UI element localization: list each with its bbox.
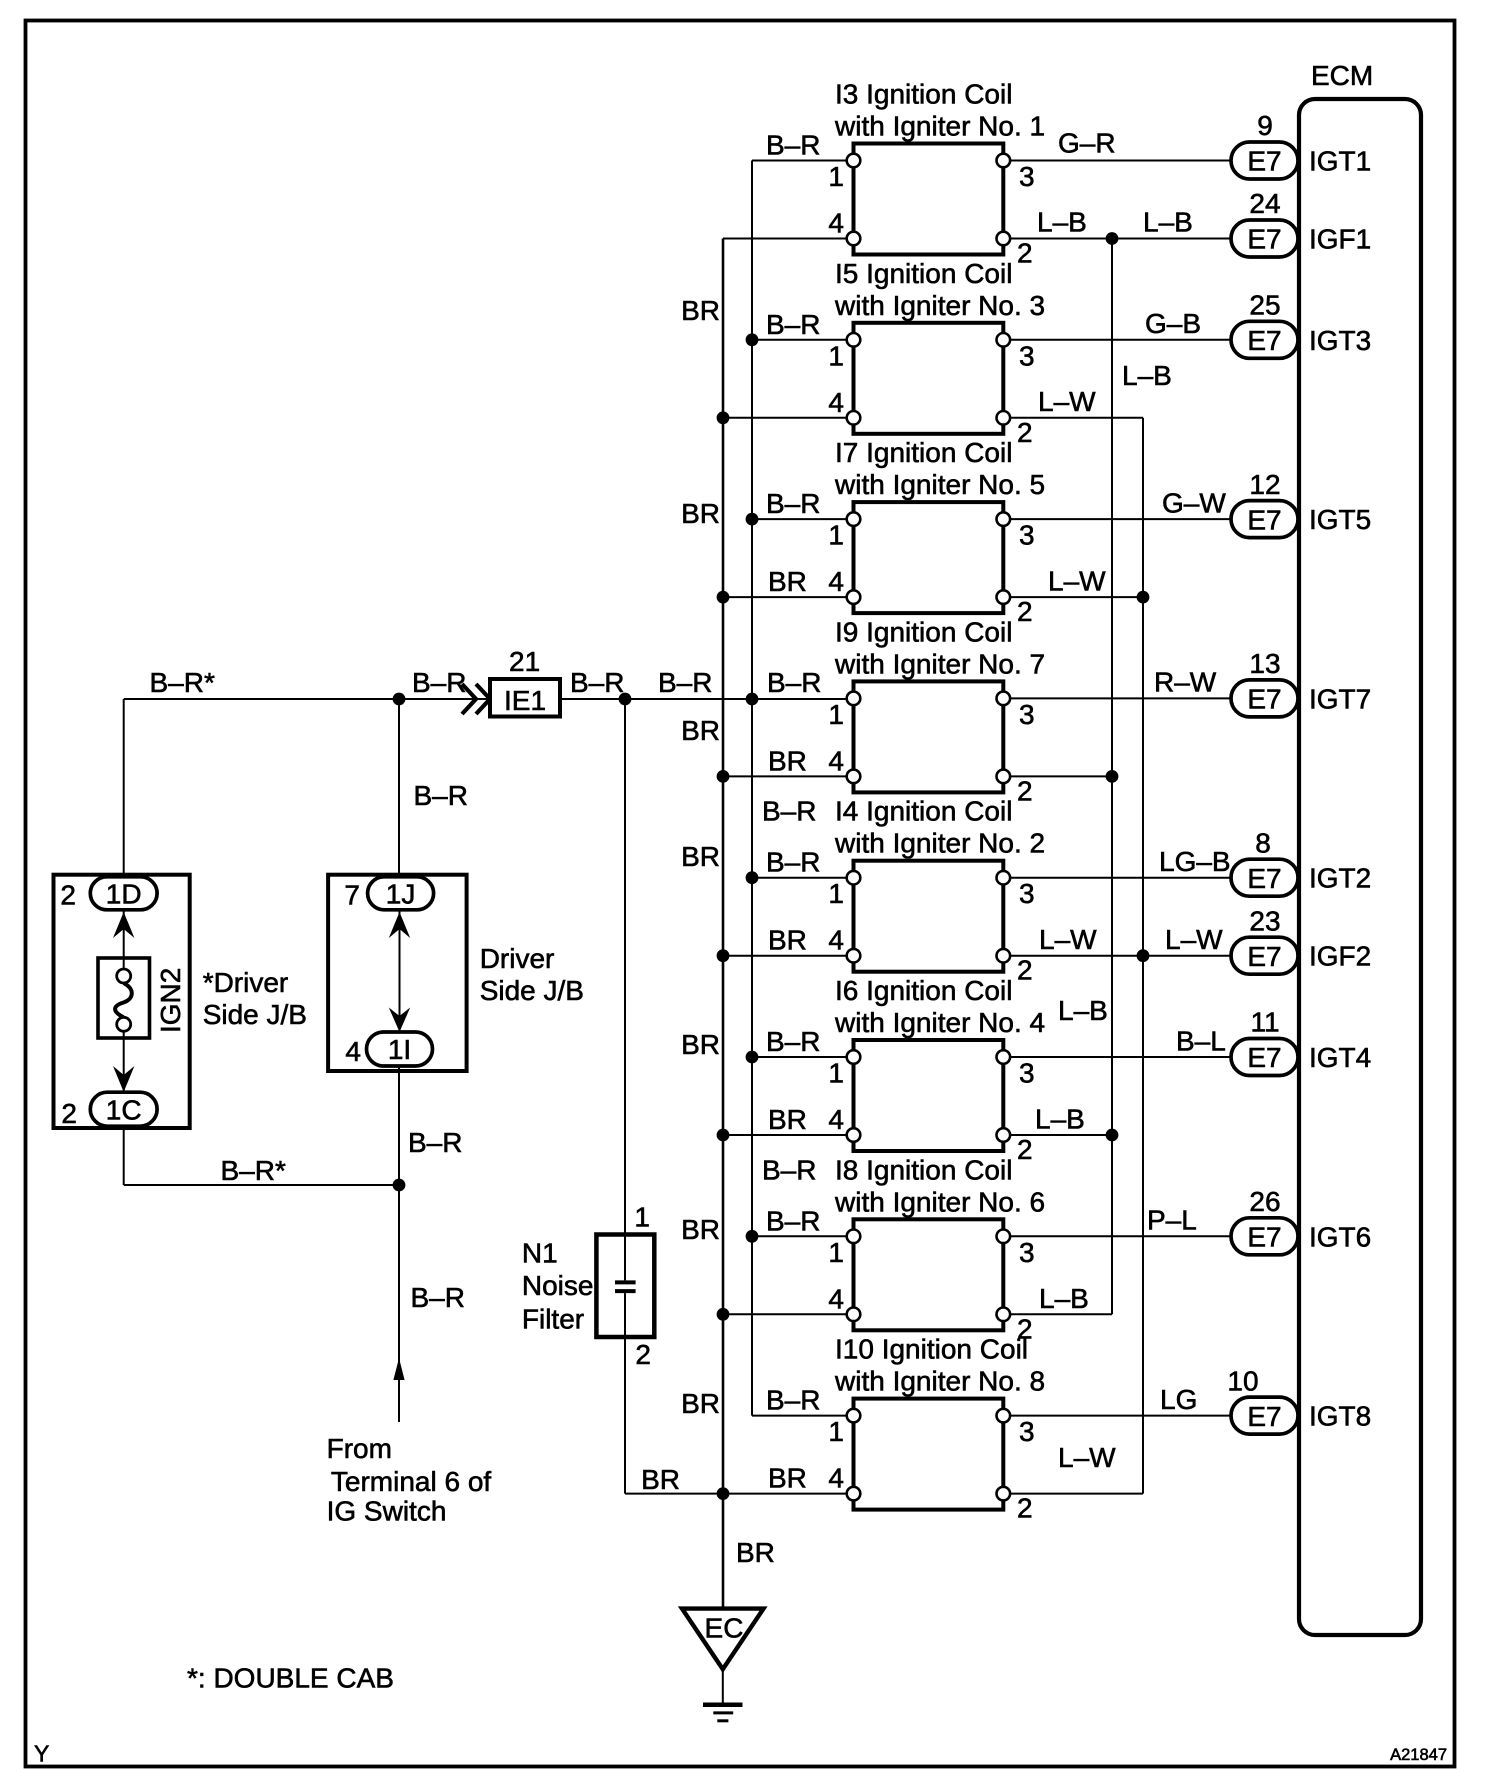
connector E7 pin 23 (IGF2) bbox=[1231, 905, 1298, 974]
connector E7 pin 25 (IGT3) bbox=[1231, 290, 1298, 359]
svg-text:23: 23 bbox=[1249, 905, 1280, 936]
svg-text:E7: E7 bbox=[1247, 325, 1281, 356]
svg-text:B–R*: B–R* bbox=[221, 1155, 286, 1186]
svg-text:Y: Y bbox=[34, 1741, 49, 1767]
connector E7 pin 12 (IGT5) bbox=[1231, 469, 1298, 538]
pin 3 of I5 bbox=[997, 333, 1035, 371]
svg-text:with Igniter No. 6: with Igniter No. 6 bbox=[834, 1186, 1045, 1217]
svg-text:IGF1: IGF1 bbox=[1309, 224, 1371, 255]
connector 1J bbox=[368, 877, 434, 910]
junction dot B-R bus pin1 I4 bbox=[746, 871, 759, 884]
junction dot BR bus pin4 I6 bbox=[717, 1129, 730, 1142]
svg-text:I5 Ignition Coil: I5 Ignition Coil bbox=[835, 258, 1012, 289]
wire L-W pin2 of I4 to ECM IGF2 bbox=[1003, 955, 1231, 957]
pin 2 of I9 bbox=[997, 770, 1033, 807]
label *Driver Side J/B bbox=[203, 967, 307, 1030]
pin 3 of I3 bbox=[997, 154, 1035, 192]
svg-text:Side J/B: Side J/B bbox=[480, 975, 584, 1006]
svg-text:3: 3 bbox=[1019, 1416, 1035, 1447]
junction dot B-R bus pin1 I5 bbox=[746, 333, 759, 346]
svg-text:I7 Ignition Coil: I7 Ignition Coil bbox=[835, 437, 1012, 468]
ignition coil I7 with igniter No. 5 bbox=[834, 437, 1045, 613]
wire vertical drop to 1J connector bbox=[398, 699, 400, 878]
svg-text:4: 4 bbox=[828, 745, 844, 776]
arrow from IG switch bbox=[393, 1358, 404, 1380]
pin 2 of I3 bbox=[997, 232, 1033, 269]
arrow down to 1C bbox=[113, 1066, 134, 1092]
wire B-R bus vertical bbox=[751, 161, 753, 1416]
svg-text:1J: 1J bbox=[386, 879, 416, 910]
svg-text:with Igniter No. 2: with Igniter No. 2 bbox=[834, 828, 1045, 859]
junction dot IGF2 row / L-W vertical bbox=[1137, 949, 1150, 962]
svg-text:with Igniter No. 7: with Igniter No. 7 bbox=[834, 648, 1045, 679]
wire B-R from junction to IE1 chevrons bbox=[399, 698, 490, 700]
ignition coil I5 with igniter No. 3 bbox=[834, 258, 1045, 434]
wire pin3 of I7 to ECM IGT5 bbox=[1003, 518, 1231, 520]
svg-text:1: 1 bbox=[828, 1058, 844, 1089]
svg-text:E7: E7 bbox=[1247, 863, 1281, 894]
svg-text:BR: BR bbox=[681, 715, 720, 746]
svg-text:IE1: IE1 bbox=[504, 685, 546, 716]
svg-text:2: 2 bbox=[1017, 596, 1033, 627]
ignition coil I6 with igniter No. 4 bbox=[834, 975, 1045, 1151]
pin 3 of I10 bbox=[997, 1409, 1035, 1447]
svg-text:4: 4 bbox=[828, 1463, 844, 1494]
svg-text:E7: E7 bbox=[1247, 224, 1281, 255]
svg-text:2: 2 bbox=[1017, 775, 1033, 806]
ignition coil I3 with igniter No. 1 bbox=[834, 79, 1045, 255]
junction dot noise filter tap bbox=[619, 693, 632, 706]
svg-text:1: 1 bbox=[828, 1416, 844, 1447]
pin 1 of I6 bbox=[828, 1050, 860, 1088]
pin 2 of I6 bbox=[997, 1128, 1033, 1165]
wire BR pin4 stub of I4 bbox=[723, 955, 854, 957]
svg-text:BR: BR bbox=[736, 1537, 775, 1568]
svg-text:EC: EC bbox=[705, 1612, 744, 1643]
wire L-W pin2 of I7 to L-W vertical bbox=[1003, 596, 1143, 598]
label N1 Noise Filter bbox=[522, 1238, 594, 1335]
svg-text:10: 10 bbox=[1227, 1365, 1258, 1396]
svg-text:L–W: L–W bbox=[1038, 386, 1096, 417]
junction dot IGF1 row / L-B vertical bbox=[1106, 232, 1119, 245]
wire B-R below 1I connector down to lower junction bbox=[398, 1066, 400, 1185]
svg-text:2: 2 bbox=[1017, 955, 1033, 986]
svg-text:I6 Ignition Coil: I6 Ignition Coil bbox=[835, 975, 1012, 1006]
svg-text:7: 7 bbox=[344, 880, 360, 911]
svg-text:L–B: L–B bbox=[1143, 207, 1193, 238]
svg-text:I8 Ignition Coil: I8 Ignition Coil bbox=[835, 1154, 1012, 1185]
wire B-R pin1 stub of I8 bbox=[752, 1235, 854, 1237]
svg-text:25: 25 bbox=[1249, 290, 1280, 321]
svg-text:IGT8: IGT8 bbox=[1309, 1401, 1371, 1432]
splice chevrons >> into IE1 bbox=[462, 684, 490, 714]
pin 1 of I7 bbox=[828, 512, 860, 550]
svg-text:with Igniter No. 3: with Igniter No. 3 bbox=[834, 290, 1045, 321]
pin 3 of I8 bbox=[997, 1230, 1035, 1268]
junction dot BR bus pin4 I8 bbox=[717, 1308, 730, 1321]
connector E7 pin 11 (IGT4) bbox=[1231, 1007, 1298, 1076]
svg-text:2: 2 bbox=[1017, 1134, 1033, 1165]
svg-text:Terminal 6 of: Terminal 6 of bbox=[331, 1466, 492, 1497]
svg-text:E7: E7 bbox=[1247, 941, 1281, 972]
connector E7 pin 26 (IGT6) bbox=[1231, 1186, 1298, 1255]
wire B-R continuing down to IG-switch arrow bbox=[398, 1185, 400, 1422]
svg-text:P–L: P–L bbox=[1147, 1205, 1197, 1236]
wire B-R pin1 stub of I7 bbox=[752, 518, 854, 520]
pin 3 of I9 bbox=[997, 692, 1035, 730]
svg-text:G–W: G–W bbox=[1162, 488, 1226, 519]
wire L-W pin2 of I5 to L-W vertical bbox=[1003, 417, 1143, 419]
svg-text:BR: BR bbox=[681, 295, 720, 326]
arrow down to 1I bbox=[389, 1008, 410, 1033]
wire L-B pin2 of I9 to L-B vertical bbox=[1003, 775, 1112, 777]
connector 1C bbox=[90, 1092, 157, 1126]
svg-text:4: 4 bbox=[828, 387, 844, 418]
pin 4 of I6 bbox=[828, 1104, 860, 1142]
svg-text:4: 4 bbox=[828, 208, 844, 239]
svg-text:L–B: L–B bbox=[1037, 207, 1087, 238]
pin 1 of I4 bbox=[828, 871, 860, 909]
svg-text:BR: BR bbox=[681, 841, 720, 872]
pin 2 of I7 bbox=[997, 590, 1033, 627]
wire L-W pin2 of I10 to L-W vertical bbox=[1003, 1493, 1143, 1495]
svg-text:L–B: L–B bbox=[1122, 360, 1172, 391]
ECM box bbox=[1299, 99, 1421, 1635]
svg-text:2: 2 bbox=[1017, 1493, 1033, 1524]
wire pin3 of I5 to ECM IGT3 bbox=[1003, 339, 1231, 341]
svg-text:B–R: B–R bbox=[762, 1154, 816, 1185]
svg-text:BR: BR bbox=[768, 745, 807, 776]
svg-text:3: 3 bbox=[1019, 1058, 1035, 1089]
Driver Side J/B box bbox=[328, 875, 467, 1071]
svg-text:L–B: L–B bbox=[1035, 1104, 1085, 1135]
svg-text:1: 1 bbox=[828, 161, 844, 192]
wire L-B pin2 of I3 to ECM IGF1 bbox=[1003, 238, 1231, 240]
svg-text:B–R: B–R bbox=[766, 1026, 820, 1057]
wire pin3 of I6 to ECM IGT4 bbox=[1003, 1056, 1231, 1058]
wire noise filter pin2 vertical to bottom BR row bbox=[624, 1337, 626, 1494]
label Driver Side J/B bbox=[480, 943, 584, 1006]
svg-text:3: 3 bbox=[1019, 340, 1035, 371]
pin 4 of I3 bbox=[828, 208, 860, 246]
wire BR pin4 stub of I9 bbox=[723, 775, 854, 777]
svg-text:LG–B: LG–B bbox=[1159, 846, 1231, 877]
wire L-B vertical collector (IGF1 net) bbox=[1111, 239, 1113, 1315]
svg-text:BR: BR bbox=[768, 1104, 807, 1135]
wire B-R pin1 stub of I4 bbox=[752, 877, 854, 879]
wire B-R pin1 stub of I10 bbox=[752, 1415, 854, 1417]
pin 2 of I5 bbox=[997, 411, 1033, 448]
junction dot BR bus pin4 I10 bbox=[717, 1487, 730, 1500]
svg-text:I10 Ignition Coil: I10 Ignition Coil bbox=[835, 1334, 1028, 1365]
svg-text:Noise: Noise bbox=[522, 1270, 594, 1301]
wire pin3 of I4 to ECM IGT2 bbox=[1003, 877, 1231, 879]
svg-text:BR: BR bbox=[641, 1464, 680, 1495]
connector E7 pin 24 (IGF1) bbox=[1231, 188, 1298, 257]
junction dot lower B-R* join bbox=[393, 1179, 406, 1192]
wire pin3 of I8 to ECM IGT6 bbox=[1003, 1235, 1231, 1237]
svg-text:2: 2 bbox=[60, 880, 76, 911]
pin 4 of I8 bbox=[828, 1283, 860, 1321]
svg-text:IGF2: IGF2 bbox=[1309, 941, 1371, 972]
connector E7 pin 13 (IGT7) bbox=[1231, 648, 1298, 717]
svg-text:E7: E7 bbox=[1247, 504, 1281, 535]
junction dot BR bus pin4 I4 bbox=[717, 949, 730, 962]
pin 1 of I3 bbox=[828, 154, 860, 192]
svg-text:R–W: R–W bbox=[1154, 667, 1217, 698]
svg-text:1: 1 bbox=[828, 878, 844, 909]
svg-text:4: 4 bbox=[345, 1036, 361, 1067]
wire BR pin4 stub of I3 bbox=[723, 238, 854, 240]
svg-text:1: 1 bbox=[828, 699, 844, 730]
wire vertical below 1C connector bbox=[123, 1126, 125, 1185]
svg-text:1: 1 bbox=[828, 340, 844, 371]
ignition coil I4 with igniter No. 2 bbox=[834, 796, 1045, 972]
svg-text:1: 1 bbox=[828, 520, 844, 551]
junction dot L-B vertical / I6 pin2 bbox=[1106, 1129, 1119, 1142]
wire BR pin4 stub of I8 bbox=[723, 1313, 854, 1315]
svg-text:21: 21 bbox=[509, 646, 540, 677]
noise filter N1 bbox=[596, 1235, 654, 1338]
pin 3 of I7 bbox=[997, 512, 1035, 550]
svg-text:IGT4: IGT4 bbox=[1309, 1042, 1371, 1073]
ignition coil I10 with igniter No. 8 bbox=[834, 1334, 1045, 1510]
junction dot L-B vertical / I9 pin2 bbox=[1106, 770, 1119, 783]
svg-text:3: 3 bbox=[1019, 161, 1035, 192]
svg-text:B–R: B–R bbox=[766, 488, 820, 519]
pin 1 of I5 bbox=[828, 333, 860, 371]
svg-text:BR: BR bbox=[768, 566, 807, 597]
pin 4 of I5 bbox=[828, 387, 860, 425]
junction dot B-R bus pin1 I8 bbox=[746, 1230, 759, 1243]
svg-text:E7: E7 bbox=[1247, 1401, 1281, 1432]
svg-text:B–R: B–R bbox=[408, 1127, 462, 1158]
svg-text:B–R: B–R bbox=[658, 667, 712, 698]
wire between 1J and 1I bbox=[399, 910, 401, 1032]
pin 3 of I6 bbox=[997, 1050, 1035, 1088]
svg-text:4: 4 bbox=[828, 1283, 844, 1314]
svg-text:B–R: B–R bbox=[767, 667, 821, 698]
pin 1 of I10 bbox=[828, 1409, 860, 1447]
pin 4 of I9 bbox=[828, 745, 860, 783]
pin 4 of I10 bbox=[828, 1463, 860, 1501]
arrow up to 1J bbox=[389, 912, 410, 938]
svg-text:B–R: B–R bbox=[411, 1282, 465, 1313]
junction dot L-W vertical / I7 pin2 bbox=[1137, 591, 1150, 604]
wire L-B pin2 of I8 to L-B vertical bbox=[1003, 1313, 1112, 1315]
wire vertical drop to 1D connector (left) bbox=[123, 699, 125, 878]
svg-text:IGT1: IGT1 bbox=[1309, 146, 1371, 177]
svg-text:BR: BR bbox=[768, 925, 807, 956]
svg-text:L–W: L–W bbox=[1165, 924, 1223, 955]
svg-text:1: 1 bbox=[828, 1237, 844, 1268]
svg-text:From: From bbox=[327, 1433, 392, 1464]
svg-text:4: 4 bbox=[828, 1104, 844, 1135]
svg-text:A21847: A21847 bbox=[1390, 1746, 1447, 1764]
svg-text:L–B: L–B bbox=[1039, 1283, 1089, 1314]
svg-text:L–W: L–W bbox=[1039, 924, 1097, 955]
svg-text:B–L: B–L bbox=[1176, 1026, 1226, 1057]
svg-text:11: 11 bbox=[1250, 1007, 1279, 1038]
svg-text:G–B: G–B bbox=[1145, 308, 1201, 339]
svg-text:4: 4 bbox=[828, 566, 844, 597]
wire B-R pin1 stub of I5 bbox=[752, 339, 854, 341]
svg-text:26: 26 bbox=[1249, 1186, 1280, 1217]
wire L-W vertical collector (IGF2 net) bbox=[1142, 418, 1144, 1494]
connector 1D bbox=[90, 877, 157, 910]
junction dot BR bus pin4 I9 bbox=[717, 770, 730, 783]
svg-text:BR: BR bbox=[681, 498, 720, 529]
pin 1 of I8 bbox=[828, 1230, 860, 1268]
svg-text:G–R: G–R bbox=[1058, 127, 1116, 158]
pin 3 of I4 bbox=[997, 871, 1035, 909]
ignition coil I9 with igniter No. 7 bbox=[834, 616, 1045, 792]
svg-text:Side J/B: Side J/B bbox=[203, 999, 307, 1030]
svg-text:ECM: ECM bbox=[1311, 60, 1373, 91]
connector E7 pin 10 (IGT8) bbox=[1227, 1365, 1298, 1434]
svg-text:8: 8 bbox=[1255, 827, 1271, 858]
svg-text:2: 2 bbox=[1017, 417, 1033, 448]
connector 1I bbox=[367, 1032, 433, 1066]
svg-text:B–R: B–R bbox=[766, 130, 820, 161]
svg-text:IGT6: IGT6 bbox=[1309, 1221, 1371, 1252]
svg-text:B–R: B–R bbox=[414, 780, 468, 811]
svg-text:*: DOUBLE CAB: *: DOUBLE CAB bbox=[187, 1662, 394, 1693]
junction dot B-R bus pin1 I7 bbox=[746, 513, 759, 526]
svg-text:3: 3 bbox=[1019, 699, 1035, 730]
wire B-R pin1 stub of I6 bbox=[752, 1056, 854, 1058]
svg-text:IG Switch: IG Switch bbox=[327, 1496, 447, 1527]
svg-text:IGT2: IGT2 bbox=[1309, 863, 1371, 894]
wire L-B pin2 of I6 to L-B vertical bbox=[1003, 1134, 1112, 1136]
pin 4 of I4 bbox=[828, 925, 860, 963]
svg-text:I9 Ignition Coil: I9 Ignition Coil bbox=[835, 616, 1012, 647]
arrow up to 1D bbox=[113, 912, 134, 938]
svg-text:2: 2 bbox=[635, 1339, 651, 1370]
svg-text:B–R: B–R bbox=[766, 309, 820, 340]
wire BR pin4 stub of I7 bbox=[723, 596, 854, 598]
ignition coil I8 with igniter No. 6 bbox=[834, 1154, 1045, 1330]
connector E7 pin 9 (IGT1) bbox=[1231, 110, 1298, 179]
svg-text:with Igniter No. 1: with Igniter No. 1 bbox=[834, 111, 1045, 142]
svg-text:B–R*: B–R* bbox=[150, 667, 215, 698]
junction dot BR bus pin4 I7 bbox=[717, 591, 730, 604]
svg-text:Filter: Filter bbox=[522, 1303, 584, 1334]
label From Terminal 6 of IG Switch bbox=[327, 1433, 492, 1527]
svg-text:3: 3 bbox=[1019, 878, 1035, 909]
svg-text:2: 2 bbox=[61, 1098, 77, 1129]
svg-text:13: 13 bbox=[1249, 648, 1280, 679]
wire pin3 of I9 to ECM IGT7 bbox=[1003, 697, 1231, 699]
wire BR bus vertical bbox=[722, 239, 725, 1609]
svg-text:1: 1 bbox=[634, 1202, 650, 1233]
svg-text:2: 2 bbox=[1017, 238, 1033, 269]
svg-text:B–R: B–R bbox=[762, 796, 816, 827]
svg-text:with Igniter No. 4: with Igniter No. 4 bbox=[834, 1007, 1045, 1038]
svg-text:IGN2: IGN2 bbox=[155, 968, 186, 1033]
svg-text:Driver: Driver bbox=[480, 943, 555, 974]
svg-text:1I: 1I bbox=[388, 1034, 411, 1065]
svg-text:IGT5: IGT5 bbox=[1309, 504, 1371, 535]
wire pin3 of I3 to ECM IGT1 bbox=[1003, 160, 1231, 162]
pin 1 of I9 bbox=[828, 692, 860, 730]
wire B-R* main horizontal y=699 from IGN2 drop to junction bbox=[124, 698, 399, 700]
svg-text:B–R: B–R bbox=[570, 667, 624, 698]
svg-text:L–B: L–B bbox=[1058, 995, 1108, 1026]
junction dot B-R* / 1J branch bbox=[393, 693, 406, 706]
pin 2 of I4 bbox=[997, 949, 1033, 986]
wire BR bottom row from noise filter to coil I10 pin4 bbox=[625, 1493, 854, 1495]
svg-text:3: 3 bbox=[1019, 1237, 1035, 1268]
svg-text:9: 9 bbox=[1257, 110, 1273, 141]
svg-text:IGT7: IGT7 bbox=[1309, 683, 1371, 714]
fuse IGN2 bbox=[98, 910, 150, 1092]
svg-text:E7: E7 bbox=[1247, 146, 1281, 177]
svg-text:4: 4 bbox=[828, 925, 844, 956]
wire BR pin4 stub of I5 bbox=[723, 417, 854, 419]
svg-text:LG: LG bbox=[1160, 1384, 1197, 1415]
svg-text:BR: BR bbox=[768, 1463, 807, 1494]
svg-text:B–R: B–R bbox=[766, 847, 820, 878]
svg-text:B–R: B–R bbox=[412, 667, 466, 698]
svg-text:N1: N1 bbox=[522, 1238, 558, 1269]
connector E7 pin 8 (IGT2) bbox=[1231, 827, 1298, 896]
svg-text:L–W: L–W bbox=[1058, 1442, 1116, 1473]
svg-text:E7: E7 bbox=[1247, 1042, 1281, 1073]
*Driver Side J/B box (IGN2) bbox=[54, 875, 190, 1128]
svg-text:3: 3 bbox=[1019, 520, 1035, 551]
svg-text:with Igniter No. 5: with Igniter No. 5 bbox=[834, 469, 1045, 500]
svg-text:B–R: B–R bbox=[766, 1205, 820, 1236]
wire B-R* lower horizontal y=1185 bbox=[124, 1184, 399, 1186]
svg-text:BR: BR bbox=[681, 1029, 720, 1060]
wire B-R from IE1 to noise-filter junction and B-R bus to coil I9 pin1 bbox=[560, 698, 854, 700]
svg-text:I4 Ignition Coil: I4 Ignition Coil bbox=[835, 796, 1012, 827]
svg-text:BR: BR bbox=[681, 1214, 720, 1245]
svg-text:L–W: L–W bbox=[1048, 566, 1106, 597]
junction dot BR bus pin4 I5 bbox=[717, 411, 730, 424]
wire B-R pin1 stub of I3 bbox=[752, 160, 854, 162]
wire noise filter pin1 vertical from y=699 junction bbox=[624, 699, 626, 1235]
pin 4 of I7 bbox=[828, 566, 860, 604]
svg-text:with Igniter No. 8: with Igniter No. 8 bbox=[834, 1366, 1045, 1397]
svg-text:*Driver: *Driver bbox=[203, 967, 289, 998]
junction connector IE1 bbox=[490, 679, 560, 717]
svg-text:IGT3: IGT3 bbox=[1309, 325, 1371, 356]
ground EC bbox=[682, 1609, 764, 1721]
svg-text:12: 12 bbox=[1249, 469, 1280, 500]
svg-text:BR: BR bbox=[681, 1388, 720, 1419]
junction dot B-R bus pin1 I6 bbox=[746, 1051, 759, 1064]
pin 2 of I8 bbox=[997, 1308, 1033, 1345]
svg-text:E7: E7 bbox=[1247, 684, 1281, 715]
svg-text:1D: 1D bbox=[106, 879, 142, 910]
svg-text:E7: E7 bbox=[1247, 1222, 1281, 1253]
wire BR pin4 stub of I6 bbox=[723, 1134, 854, 1136]
pin 2 of I10 bbox=[997, 1487, 1033, 1524]
wire pin3 of I10 to ECM IGT8 bbox=[1003, 1415, 1231, 1417]
svg-text:B–R: B–R bbox=[766, 1385, 820, 1416]
svg-text:24: 24 bbox=[1249, 188, 1280, 219]
junction dot B-R bus / main line bbox=[746, 693, 759, 706]
svg-text:1C: 1C bbox=[106, 1094, 142, 1125]
svg-text:I3 Ignition Coil: I3 Ignition Coil bbox=[835, 79, 1012, 110]
